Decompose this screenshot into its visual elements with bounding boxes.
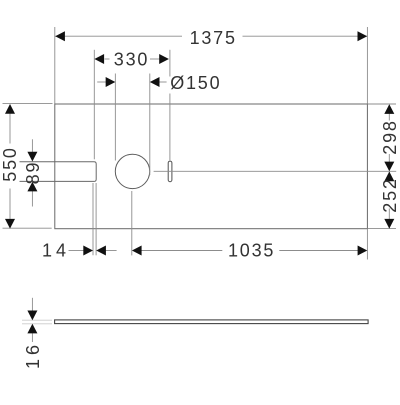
dimension D150: [97, 74, 166, 176]
svg-text:89: 89: [23, 161, 43, 185]
dimension 550 (left): [3, 103, 53, 228]
left open slot with 89 extension lines: [20, 162, 97, 182]
dimension 1035: [132, 191, 368, 260]
svg-text:330: 330: [114, 50, 149, 70]
dimension 89: [31, 139, 33, 206]
svg-text:298: 298: [380, 119, 400, 154]
dimension 14: [69, 183, 117, 255]
dimension 1375 (top): [55, 27, 368, 104]
side view sliver: [55, 320, 369, 324]
svg-text:1035: 1035: [228, 241, 275, 261]
dimension 330: [94, 50, 170, 161]
svg-text:550: 550: [0, 146, 20, 181]
dimension 298 / 252 (right): [368, 104, 396, 229]
basin hole circle D150: [115, 154, 149, 188]
svg-text:Ø150: Ø150: [170, 73, 221, 93]
svg-text:14: 14: [42, 241, 70, 261]
main countertop rectangle (top view): [55, 104, 368, 229]
dimension 16 (side view): [22, 320, 52, 324]
svg-text:16: 16: [23, 341, 43, 369]
svg-text:1375: 1375: [190, 28, 237, 48]
svg-text:252: 252: [380, 177, 400, 212]
small slot (faucet hole): [168, 161, 172, 182]
centerline to right edge: [154, 170, 397, 172]
